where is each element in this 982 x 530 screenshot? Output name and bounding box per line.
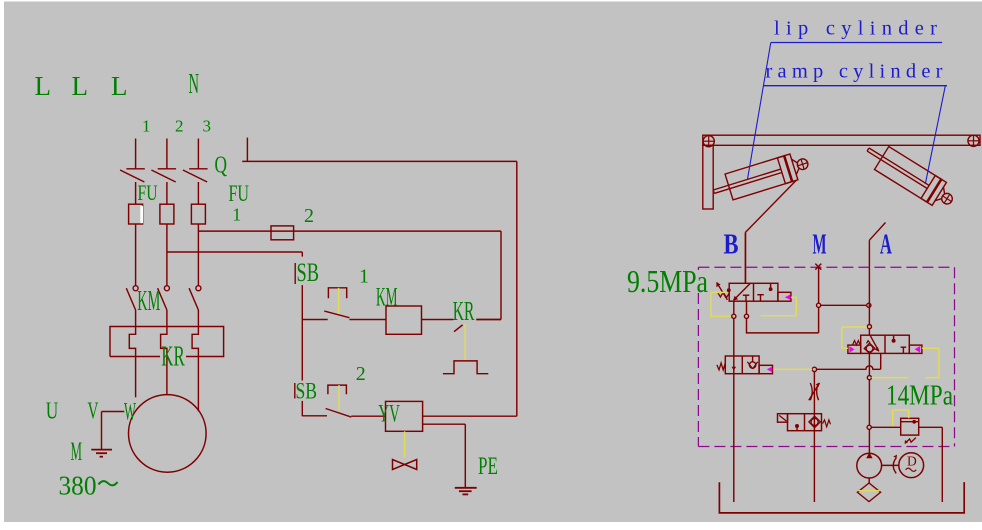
svg-text:380: 380 [59, 471, 97, 501]
svg-text:2: 2 [356, 363, 366, 385]
svg-text:L: L [111, 71, 128, 101]
svg-text:1: 1 [232, 205, 241, 225]
svg-text:9.5MPa: 9.5MPa [627, 263, 708, 299]
svg-text:PE: PE [478, 453, 498, 480]
svg-text:SB: SB [297, 258, 320, 287]
svg-text:L: L [72, 71, 89, 101]
svg-text:L: L [35, 71, 52, 101]
svg-text:KR: KR [161, 340, 185, 372]
svg-text:YV: YV [378, 400, 400, 427]
svg-text:A: A [880, 229, 892, 261]
svg-text:SB: SB [296, 379, 318, 404]
svg-text:KM: KM [137, 286, 160, 317]
svg-text:1: 1 [359, 266, 369, 288]
svg-text:2: 2 [304, 205, 314, 227]
svg-text:ramp cylinder: ramp cylinder [766, 61, 943, 83]
svg-text:3: 3 [203, 117, 212, 136]
svg-text:14MPa: 14MPa [886, 381, 953, 412]
svg-text:B: B [724, 229, 739, 261]
svg-text:N: N [189, 68, 200, 100]
svg-text:1: 1 [142, 117, 151, 136]
svg-text:FU: FU [138, 180, 158, 205]
svg-text:V: V [88, 399, 99, 425]
svg-text:W: W [124, 399, 136, 426]
svg-text:U: U [46, 399, 59, 425]
svg-text:D: D [907, 453, 917, 468]
svg-text:Q: Q [215, 153, 228, 179]
svg-text:KR: KR [453, 296, 475, 326]
svg-text:M: M [813, 229, 827, 261]
svg-text:KM: KM [376, 283, 398, 312]
svg-text:2: 2 [175, 117, 184, 136]
svg-text:FU: FU [229, 181, 250, 206]
svg-text:M: M [71, 437, 83, 466]
